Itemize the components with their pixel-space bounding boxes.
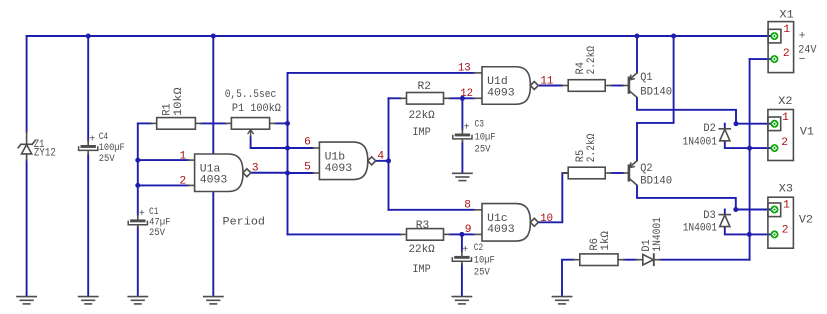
svg-text:ZY12: ZY12: [34, 147, 56, 159]
zener diode Z1: [18, 141, 35, 154]
wire node C to R2 left: [389, 97, 401, 99]
junction node B pin6: [285, 146, 290, 151]
svg-text:0,5..5sec: 0,5..5sec: [225, 89, 277, 101]
wire D2 anode to X2 pin 2 net: [725, 142, 771, 149]
wire D3 cathode stub: [724, 210, 726, 214]
pin stub C4 bottom: [87, 151, 89, 155]
svg-text:+: +: [464, 123, 470, 134]
pin stub C1 top: [137, 215, 139, 220]
junction X3 pin1/D3 cathode: [733, 207, 738, 212]
svg-text:V2: V2: [799, 215, 813, 227]
resistor R5: [568, 167, 605, 179]
wire node E to C3 plus: [461, 98, 463, 129]
pin stub C2 top: [461, 251, 463, 256]
junction rail/Q1 emitter: [635, 34, 640, 39]
svg-text:V1: V1: [800, 127, 814, 139]
svg-text:10kΩ: 10kΩ: [173, 87, 185, 116]
svg-text:25V: 25V: [99, 153, 116, 165]
pin stub U1a pin 1: [188, 159, 194, 161]
svg-text:12: 12: [460, 88, 473, 100]
svg-text:6: 6: [304, 137, 311, 149]
svg-text:2: 2: [782, 225, 789, 237]
svg-text:4093: 4093: [487, 87, 515, 99]
pin stub U1b pin 6: [313, 147, 319, 149]
connector X3 pin 1 pad: [771, 206, 779, 214]
capacitor C1: [128, 219, 147, 224]
pin stub Z1 bottom: [26, 154, 28, 160]
diode D1: [643, 254, 654, 265]
pin stub R1 left: [151, 122, 156, 124]
svg-text:U1c: U1c: [487, 213, 508, 225]
svg-text:3: 3: [252, 163, 259, 175]
pin stub P1 wiper arrow: [248, 130, 253, 137]
svg-text:IMP: IMP: [412, 127, 431, 139]
wire D2 cathode stub: [724, 124, 726, 128]
svg-text:D2: D2: [703, 123, 716, 135]
wire node B to U1b pin 5: [288, 172, 314, 174]
svg-text:2: 2: [781, 137, 788, 149]
wire left drop to Z1 cathode: [26, 36, 28, 132]
wire C2 minus to ground: [461, 264, 463, 296]
svg-text:1: 1: [783, 200, 790, 212]
wire Q2 collector down-right to X3 pin 1: [637, 186, 736, 210]
svg-text:Q2: Q2: [640, 163, 652, 175]
op-amp U1a nand gate: [195, 154, 251, 192]
wire node B to U1d pin 13: [288, 72, 474, 74]
wire Z1 anode to ground: [26, 160, 28, 295]
svg-text:22kΩ: 22kΩ: [408, 244, 435, 256]
wire U1c output pin 10 jog to R5: [539, 173, 568, 222]
pin stub R5 right: [605, 172, 611, 174]
pin stub D1 right: [654, 259, 660, 261]
capacitor C2: [452, 256, 471, 261]
svg-text:25V: 25V: [475, 144, 492, 156]
svg-text:9: 9: [465, 224, 472, 236]
transistor Q2: [629, 161, 637, 185]
connector X3 body: [768, 197, 794, 248]
resistor R1: [157, 118, 196, 130]
ground C4: [79, 297, 98, 304]
diode D2: [719, 129, 730, 141]
wire R5 right to Q2 base: [611, 172, 623, 174]
svg-text:R1: R1: [162, 103, 174, 116]
wire junction to X2 pin 1: [736, 123, 771, 125]
wire U1a output pin 3 to node B: [251, 172, 287, 174]
svg-text:Q1: Q1: [640, 72, 653, 84]
svg-text:11: 11: [541, 76, 554, 88]
svg-text:1kΩ: 1kΩ: [600, 231, 612, 251]
svg-text:1N4001: 1N4001: [683, 136, 718, 148]
svg-text:4: 4: [377, 150, 384, 162]
svg-text:4093: 4093: [487, 224, 515, 236]
svg-text:X2: X2: [778, 96, 792, 108]
ground R6: [552, 297, 571, 304]
pin stub R6 right: [618, 259, 624, 261]
transistor Q1: [629, 73, 637, 97]
pin stub R3 right: [444, 233, 450, 235]
pin stub P1 right: [270, 122, 276, 124]
pin stub U1c pin 9: [474, 233, 482, 235]
wire node D to C2 plus: [461, 234, 463, 251]
svg-text:2.2kΩ: 2.2kΩ: [586, 133, 598, 162]
junction rail/U1a supply: [211, 34, 216, 39]
pin stub C4 top: [87, 141, 89, 145]
op-amp U1c nand gate: [482, 204, 538, 242]
junction X2 pin1/D2 cathode: [734, 121, 739, 126]
svg-text:U1b: U1b: [325, 151, 346, 163]
junction node C U1b output: [386, 158, 391, 163]
pin stub U1d pin 12: [474, 97, 482, 99]
wire R4 right to Q1 base: [611, 85, 623, 87]
svg-text:+: +: [799, 30, 806, 42]
diode D3: [719, 215, 730, 227]
capacitor C3: [453, 134, 472, 139]
pin stub R2 right: [444, 97, 450, 99]
wire R6 right to D1 anode: [624, 259, 636, 261]
svg-text:IMP: IMP: [412, 264, 431, 276]
junction X2 pin2/minus net: [747, 146, 752, 151]
connector X1 body: [768, 22, 794, 73]
wire U1a supply vertical rail-to-ground: [212, 36, 214, 296]
pin stub U1a pin 2: [188, 184, 194, 186]
wire node C vertical: [388, 98, 390, 210]
junction rail/Q2 feed: [671, 34, 676, 39]
svg-text:10µF: 10µF: [474, 255, 495, 267]
svg-text:C2: C2: [474, 243, 484, 254]
wire R2 right to node E: [450, 97, 463, 99]
svg-text:1: 1: [179, 150, 186, 162]
svg-text:4093: 4093: [325, 163, 353, 175]
wire C4 minus to ground: [87, 155, 89, 296]
wire D1 cathode to minus net: [660, 259, 750, 261]
junction node B pin5: [285, 171, 290, 176]
wire +24V top rail: [27, 35, 771, 37]
ground C2: [452, 297, 471, 304]
connector X1 pin 2 pad: [770, 55, 778, 63]
svg-text:X1: X1: [780, 9, 794, 21]
pin stub R5 left: [562, 172, 568, 174]
svg-text:4093: 4093: [200, 175, 228, 187]
pin stub C3 top: [461, 129, 463, 133]
svg-text:22kΩ: 22kΩ: [408, 110, 435, 122]
junction rail/C4: [86, 34, 91, 39]
wire R1 right to P1 left: [201, 122, 226, 124]
svg-text:1: 1: [782, 112, 789, 124]
svg-text:1: 1: [783, 24, 790, 36]
wire junction to X3 pin 1: [736, 209, 771, 211]
ground U1a supply: [204, 297, 223, 304]
pin stub C3 bottom: [461, 139, 463, 142]
svg-text:5: 5: [304, 162, 311, 174]
pin stub Q2 base: [623, 172, 628, 174]
svg-text:X3: X3: [779, 184, 793, 196]
svg-text:25V: 25V: [474, 267, 491, 279]
wire node E to U1d pin 12: [462, 97, 474, 99]
connector X3 pin 2 pad: [771, 230, 779, 238]
wire node B to U1b pin 6: [288, 147, 314, 149]
svg-text:2: 2: [179, 175, 186, 187]
wire rail to Q1 emitter: [636, 36, 638, 73]
svg-text:2.2kΩ: 2.2kΩ: [586, 46, 598, 75]
junction node E C3: [460, 96, 465, 101]
op-amp U1b nand gate: [319, 142, 375, 180]
connector X2 pin 1 pad: [771, 120, 779, 128]
wire U1a pin 2 from node A: [138, 184, 189, 186]
wire minus net vertical X1.2-X2.2-X3.2: [749, 59, 751, 260]
svg-text:1N4001: 1N4001: [683, 222, 718, 234]
pin stub R4 right: [605, 85, 611, 87]
pin stub P1 left: [226, 122, 232, 124]
pin stub U1c pin 8: [474, 209, 482, 211]
resistor R4: [568, 80, 605, 92]
resistor R6: [580, 254, 618, 266]
wire U1b output pin 4 to node C: [376, 160, 389, 162]
wire rail to C4 plus: [87, 36, 89, 141]
wire P1 wiper drop: [251, 136, 288, 148]
wire R6 left to ground: [562, 260, 574, 296]
wire minus net to X1 pin 2: [750, 58, 771, 60]
capacitor C4: [79, 145, 98, 150]
pin stub U1b pin 5: [313, 172, 319, 174]
potentiometer P1: [231, 118, 269, 130]
wire P1 right to node B: [275, 122, 287, 124]
svg-text:8: 8: [464, 199, 471, 211]
pin stub Z1 top: [26, 132, 28, 144]
svg-text:13: 13: [458, 63, 471, 75]
junction node A pin1: [135, 158, 140, 163]
svg-text:C3: C3: [475, 120, 485, 131]
junction node D C2: [459, 232, 464, 237]
svg-text:R3: R3: [416, 220, 430, 232]
svg-text:+: +: [139, 209, 145, 220]
wire U1d output pin 11 to R4: [540, 85, 562, 87]
svg-text:+: +: [89, 135, 95, 146]
wire U1a pin 1 from node A: [138, 159, 189, 161]
wire node D to U1c pin 9: [462, 233, 474, 235]
pin stub R2 left: [401, 97, 407, 99]
connector X2 pin 2 pad: [771, 144, 779, 152]
svg-text:R2: R2: [418, 81, 432, 93]
wire D3 anode to X3 pin 2 net: [725, 227, 771, 234]
pin stub Q1 base: [623, 85, 628, 87]
ground C3: [453, 173, 472, 180]
svg-text:U1d: U1d: [487, 76, 508, 88]
svg-text:Period: Period: [223, 216, 266, 228]
svg-text:+: +: [462, 245, 468, 256]
wire C3 minus to ground: [461, 142, 463, 172]
wire Q1 collector down-right to X2 pin 1: [637, 98, 736, 124]
ground left Z1: [17, 297, 36, 304]
svg-text:BD140: BD140: [640, 176, 672, 188]
pin stub R4 left: [562, 85, 568, 87]
pin stub R6 left: [574, 259, 580, 261]
wire C1 minus to ground: [137, 227, 139, 296]
wire node B vertical: [287, 73, 289, 235]
pin stub U1d pin 13: [474, 72, 482, 74]
wire node A to R1 left: [138, 122, 152, 124]
resistor R2: [407, 93, 444, 105]
svg-text:−: −: [799, 54, 806, 66]
junction X3 pin2/minus net: [747, 232, 752, 237]
svg-text:1N4001: 1N4001: [652, 217, 664, 252]
svg-text:U1a: U1a: [200, 163, 221, 175]
wire node A vertical C1/R1/pins 1-2: [137, 123, 139, 214]
resistor R3: [407, 229, 444, 241]
op-amp U1d nand gate: [482, 67, 538, 105]
wire node C to U1c pin 8: [389, 209, 475, 211]
pin stub R1 right: [195, 122, 201, 124]
svg-text:10: 10: [540, 213, 553, 225]
junction node A pin2: [135, 183, 140, 188]
svg-text:25V: 25V: [149, 227, 166, 239]
connector X1 pin 1 pad: [770, 32, 778, 40]
svg-text:P1 100kΩ: P1 100kΩ: [232, 103, 281, 115]
ground C1: [128, 297, 147, 304]
wire R3 right to node D: [450, 233, 462, 235]
pin stub C1 bottom: [137, 225, 139, 227]
svg-text:D3: D3: [703, 210, 716, 222]
pin stub C2 bottom: [461, 262, 463, 265]
connector X2 body: [768, 110, 794, 161]
svg-text:BD140: BD140: [640, 86, 672, 98]
pin stub D1 left: [636, 259, 643, 261]
wire rail jog to Q2 emitter: [637, 36, 674, 160]
svg-text:10µF: 10µF: [475, 132, 496, 144]
wire node B to R3 left: [288, 233, 401, 235]
pin stub R3 left: [401, 233, 407, 235]
svg-text:2: 2: [783, 48, 790, 60]
junction node B P1: [285, 121, 290, 126]
